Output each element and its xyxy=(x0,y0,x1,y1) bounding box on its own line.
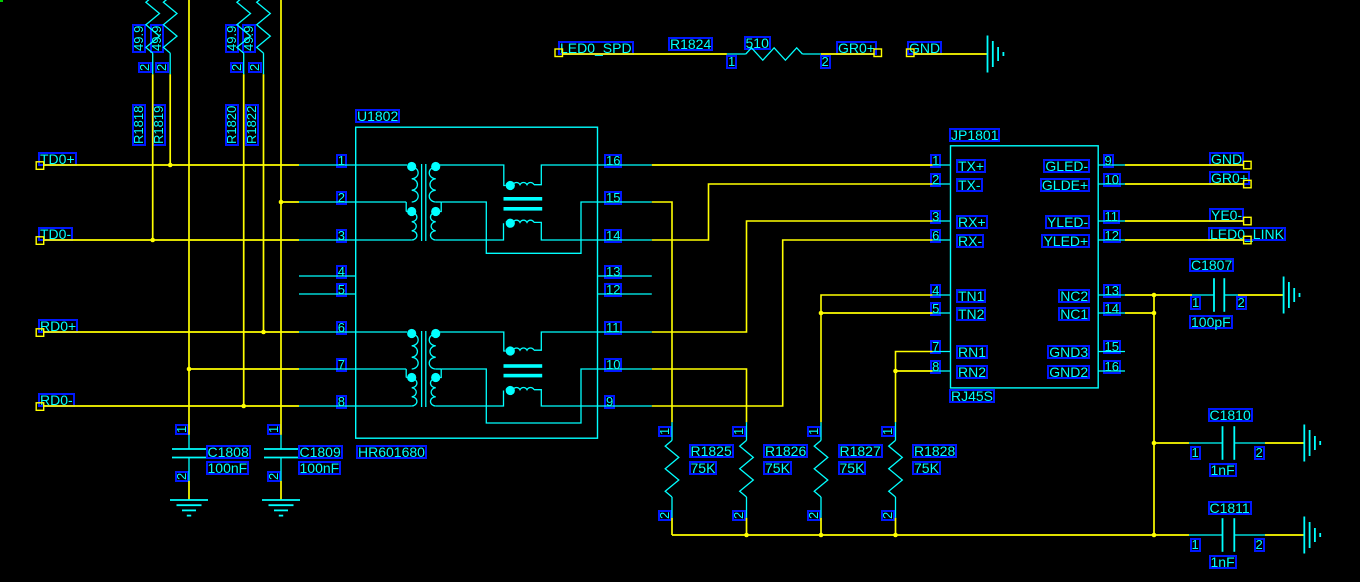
wire U14 to JP2 xyxy=(652,184,933,240)
label C1809 refdes xyxy=(298,445,343,459)
wire JP13 to C1807 xyxy=(1125,294,1192,296)
label R1824 refdes xyxy=(668,37,713,51)
label JP1801 pin number 3 xyxy=(930,210,941,224)
wire JP5 branch xyxy=(821,312,933,314)
capacitor C1810 1nF xyxy=(1189,442,1223,444)
port TD0+ xyxy=(36,162,44,170)
label JP1801 refdes xyxy=(949,128,1000,142)
wire R1825 to bus xyxy=(671,518,673,535)
U1802 choke winding A xyxy=(506,181,515,190)
label JP1801 pin number 13 xyxy=(1103,284,1121,298)
label R1822 refdes xyxy=(245,104,259,146)
label JP1801 pin number 4 xyxy=(930,284,941,298)
label R1825 pin2 xyxy=(658,510,672,521)
label C1808 value 100nF xyxy=(206,461,250,475)
label JP1801 pin name GND2 xyxy=(1047,365,1090,379)
label JP1801 pin number 2 xyxy=(930,173,941,187)
wire R1828 to bus xyxy=(895,518,897,535)
U1802 secondary winding xyxy=(431,329,440,338)
U1802 primary winding xyxy=(299,331,407,333)
wire JP14 branch xyxy=(1125,312,1154,314)
label U1802 pin number 10 xyxy=(604,358,622,372)
JP1801 pin 15 stub xyxy=(1098,351,1125,353)
JP1801 pin 11 stub xyxy=(1098,220,1125,222)
junction column/JP13 C1807 xyxy=(1152,293,1157,298)
label C1809 value 100nF xyxy=(298,461,342,475)
wire R1827 to bus xyxy=(820,518,822,535)
label U1802 pin number 3 xyxy=(336,229,347,243)
label JP1801 pin name NC1 xyxy=(1058,307,1090,321)
label JP1801 pin name RX- xyxy=(956,234,984,248)
junction column/bus C1811 xyxy=(1152,533,1157,538)
port LED0_SPD xyxy=(555,49,563,57)
port GND top xyxy=(907,49,915,57)
label JP1801 pin number 9 xyxy=(1103,154,1114,168)
label C1807 refdes xyxy=(1189,258,1234,272)
JP1801 pin 12 stub xyxy=(1098,239,1125,241)
junction R1818/TD0- xyxy=(150,238,155,243)
label R1826 value 75K xyxy=(763,461,792,475)
label R1819 pin2 xyxy=(155,61,169,72)
label R1827 pin1 xyxy=(807,425,821,436)
wire JP9 to GND port xyxy=(1125,164,1244,166)
JP1801 pin 8 stub xyxy=(933,370,951,372)
U1802 primary winding xyxy=(299,164,407,166)
label net YE0- right xyxy=(1209,208,1244,222)
U1802 secondary winding xyxy=(431,162,440,171)
port GND right xyxy=(1244,161,1252,169)
label U1802 part HR601680 xyxy=(356,445,427,459)
wire C1809 to ground xyxy=(280,481,282,500)
label R1826 pin1 xyxy=(732,425,746,436)
label JP1801 pin name TX+ xyxy=(956,159,986,173)
JP1801 pin 6 stub xyxy=(933,239,951,241)
resistor R1826 75K xyxy=(746,422,748,440)
label net TD0- xyxy=(38,227,73,241)
wire JP8 branch xyxy=(896,370,933,372)
port YE0- right xyxy=(1244,217,1252,225)
label U1802 pin number 8 xyxy=(336,395,347,409)
junction JP5/R1827 xyxy=(819,311,824,316)
label R1825 value 75K xyxy=(689,461,718,475)
label R1822 value 49.9 xyxy=(242,24,256,53)
wire C1808 to ground xyxy=(188,481,190,500)
label U1802 pin number 13 xyxy=(604,265,622,279)
label JP1801 pin number 6 xyxy=(930,229,941,243)
wire JP4 to R1827 xyxy=(821,295,933,422)
label R1820 pin2 xyxy=(230,61,244,72)
label JP1801 pin number 12 xyxy=(1103,229,1121,243)
ground C1809 xyxy=(262,499,300,501)
wire TD0- xyxy=(44,239,299,241)
wire ground bus xyxy=(672,534,1154,536)
wire R1826 to bus xyxy=(746,518,748,535)
label JP1801 pin name RN2 xyxy=(956,365,988,379)
label R1819 value 49.9 xyxy=(150,24,164,53)
U1802 choke winding A xyxy=(506,346,515,355)
label U1802 pin number 16 xyxy=(604,154,622,168)
label C1809 pin2 xyxy=(267,471,281,482)
label net GND top xyxy=(907,41,942,55)
U1802 core xyxy=(421,331,423,407)
JP1801 pin 7 stub xyxy=(933,351,951,353)
junction R1826/bus xyxy=(744,533,749,538)
label JP1801 pin name GND3 xyxy=(1047,345,1090,359)
wire JP12 to LED0_LINK port xyxy=(1125,239,1244,241)
JP1801 pin 4 stub xyxy=(933,294,951,296)
label C1811 value 1nF xyxy=(1209,555,1237,569)
label JP1801 pin name GLED- xyxy=(1043,159,1090,173)
capacitor C1807 100pF xyxy=(1192,294,1214,296)
label R1828 value 75K xyxy=(912,461,941,475)
junction R1828/bus xyxy=(893,533,898,538)
resistor R1828 75K xyxy=(895,422,897,440)
port TD0- xyxy=(36,237,44,245)
label U1802 pin number 4 xyxy=(336,265,347,279)
wire pin2 branch xyxy=(281,201,299,203)
label U1802 pin number 7 xyxy=(336,358,347,372)
JP1801 pin 2 stub xyxy=(933,183,951,185)
label R1824 value 510 xyxy=(744,36,771,50)
label JP1801 pin name GLDE+ xyxy=(1040,178,1090,192)
label JP1801 pin name TN1 xyxy=(956,289,986,303)
U1802 choke winding B xyxy=(436,223,504,240)
junction R1827/bus xyxy=(819,533,824,538)
label U1802 pin number 1 xyxy=(336,154,347,168)
label C1809 pin1 xyxy=(267,424,281,435)
JP1801 pin 9 stub xyxy=(1098,164,1125,166)
label C1810 refdes xyxy=(1208,408,1253,422)
resistor R1818 49.9 xyxy=(146,0,160,53)
resistor R1820 49.9 xyxy=(237,0,251,53)
capacitor C1808 100nF xyxy=(188,435,190,449)
label R1824 pin2 xyxy=(820,55,831,69)
wire vertical to C1809 xyxy=(280,0,282,435)
wire right vertical column xyxy=(1153,295,1155,535)
U1802 pin 13 stub xyxy=(598,275,652,277)
U1802 choke core bars xyxy=(504,197,543,201)
JP1801 pin 13 stub xyxy=(1098,294,1125,296)
label R1828 refdes xyxy=(912,444,957,458)
label JP1801 pin name RX+ xyxy=(956,215,988,229)
green artifact top-left corner xyxy=(0,0,3,2)
label JP1801 pin name NC2 xyxy=(1058,289,1090,303)
wire C1807 to ground xyxy=(1238,294,1284,296)
wire RD0+ xyxy=(44,331,299,333)
label JP1801 part RJ45S xyxy=(949,389,995,403)
junction wire/pin7 branch xyxy=(187,367,192,372)
U1802 choke core bars xyxy=(504,364,543,368)
wire U15 to R1825 xyxy=(652,202,672,422)
label R1818 pin2 xyxy=(138,61,152,72)
label net RD0+ xyxy=(38,319,78,333)
junction JP8/R1828 xyxy=(893,369,898,374)
label C1808 pin1 xyxy=(175,424,189,435)
label JP1801 pin number 15 xyxy=(1103,340,1121,354)
wire R1818 to TD0- xyxy=(152,74,154,240)
wire JP7 to R1828 xyxy=(896,352,933,423)
label R1818 value 49.9 xyxy=(132,24,146,53)
wire pin7 branch xyxy=(189,368,299,370)
label C1811 pin1 xyxy=(1190,538,1201,552)
label U1802 pin number 14 xyxy=(604,229,622,243)
label net RD0- xyxy=(38,393,75,407)
wire R1820 to RD0- xyxy=(243,74,245,406)
JP1801 pin 5 stub xyxy=(933,312,951,314)
label C1810 value 1nF xyxy=(1209,463,1237,477)
U1802 pin 5 stub xyxy=(299,293,356,295)
label JP1801 pin number 16 xyxy=(1103,360,1121,374)
port RD0+ xyxy=(36,329,44,337)
port RD0- xyxy=(36,403,44,411)
wire JP10 to GR0+ port xyxy=(1125,183,1244,185)
port GR0+ top xyxy=(874,49,882,57)
label net GR0+ right xyxy=(1209,171,1250,185)
resistor R1824 510 xyxy=(727,53,746,55)
junction wire/pin2 branch xyxy=(279,200,284,205)
label C1807 value 100pF xyxy=(1189,315,1233,329)
junction R1820/RD0- xyxy=(241,404,246,409)
resistor R1819 49.9 xyxy=(163,0,177,53)
label JP1801 pin name YLED- xyxy=(1045,215,1090,229)
capacitor C1811 1nF xyxy=(1189,534,1223,536)
U1802 center tap to pin xyxy=(436,368,442,370)
JP1801 pin 1 stub xyxy=(933,164,951,166)
label R1822 pin2 xyxy=(248,61,262,72)
U1802 pin 12 stub xyxy=(598,293,652,295)
ground C1808 xyxy=(170,499,208,501)
label R1820 refdes xyxy=(225,104,239,146)
wire U9 to JP6 xyxy=(652,240,933,406)
label U1802 pin number 12 xyxy=(604,283,622,297)
wire column to C1810 xyxy=(1154,442,1189,444)
wire JP11 to YE0- port xyxy=(1125,220,1244,222)
wire R1819 to TD0+ xyxy=(169,74,171,165)
label R1826 pin2 xyxy=(732,510,746,521)
resistor R1822 49.9 xyxy=(257,0,271,53)
label JP1801 pin name YLED+ xyxy=(1041,234,1090,248)
resistor R1827 75K xyxy=(820,422,822,440)
transformer U1802 body xyxy=(356,127,598,438)
label U1802 pin number 2 xyxy=(336,191,347,205)
ground C1810 xyxy=(1303,425,1305,462)
label U1802 pin number 9 xyxy=(604,395,615,409)
label R1820 value 49.9 xyxy=(225,24,239,53)
JP1801 pin 14 stub xyxy=(1098,312,1125,314)
label C1808 refdes xyxy=(206,445,251,459)
label net LED0_SPD xyxy=(558,41,634,55)
label R1827 pin2 xyxy=(807,510,821,521)
label C1811 refdes xyxy=(1208,501,1252,515)
label R1827 value 75K xyxy=(838,461,867,475)
capacitor C1809 100nF xyxy=(280,435,282,449)
JP1801 pin 10 stub xyxy=(1098,183,1125,185)
U1802 choke winding B xyxy=(436,391,504,407)
label C1807 pin1 xyxy=(1190,296,1201,310)
ground C1811 xyxy=(1303,517,1305,554)
label net TD0+ xyxy=(38,152,77,166)
junction column/JP14 xyxy=(1152,311,1157,316)
ground C1807 xyxy=(1283,277,1285,314)
wire LED0_SPD to R1824 pin1 xyxy=(563,53,727,55)
label JP1801 pin number 11 xyxy=(1103,210,1121,224)
label U1802 refdes xyxy=(355,109,400,123)
label JP1801 pin number 8 xyxy=(930,360,941,374)
wire C1810 to ground xyxy=(1265,442,1304,444)
connector JP1801 body xyxy=(951,146,1099,388)
wire GND port to ground xyxy=(913,53,987,55)
label net LED0_LINK right xyxy=(1208,227,1286,241)
resistor R1825 75K xyxy=(671,422,673,440)
label U1802 pin number 15 xyxy=(604,191,622,205)
label R1828 pin2 xyxy=(881,510,895,521)
label C1811 pin2 xyxy=(1254,538,1265,552)
label JP1801 pin number 7 xyxy=(930,340,941,354)
label C1807 pin2 xyxy=(1236,296,1247,310)
wire C1811 to ground xyxy=(1265,534,1304,536)
label U1802 pin number 5 xyxy=(336,283,347,297)
junction R1822/RD0+ xyxy=(261,330,266,335)
label JP1801 pin name TX- xyxy=(956,178,983,192)
label R1818 refdes xyxy=(132,104,146,146)
junction column/C1810 xyxy=(1152,441,1157,446)
label net GND right xyxy=(1209,152,1244,166)
label C1808 pin2 xyxy=(175,471,189,482)
label R1825 refdes xyxy=(689,444,734,458)
JP1801 pin 16 stub xyxy=(1098,370,1125,372)
label JP1801 pin name TN2 xyxy=(956,307,986,321)
label C1810 pin1 xyxy=(1190,446,1201,460)
U1802 center tap to pin xyxy=(436,201,442,203)
label R1826 refdes xyxy=(763,444,808,458)
label JP1801 pin number 14 xyxy=(1103,302,1121,316)
wire TD0+ xyxy=(44,164,299,166)
wire U16 to JP1 xyxy=(652,164,933,166)
wire vertical to C1808 xyxy=(188,0,190,435)
label R1827 refdes xyxy=(838,444,883,458)
label R1824 pin1 xyxy=(726,55,737,69)
wire bus to C1811 xyxy=(1154,534,1189,536)
wire R1824 pin2 to GR0+ port xyxy=(821,53,874,55)
label R1825 pin1 xyxy=(658,425,672,436)
wire U10 to R1826 xyxy=(652,369,747,422)
port GR0+ right xyxy=(1244,180,1252,188)
label R1819 refdes xyxy=(152,104,166,146)
junction R1819/TD0+ xyxy=(168,163,173,168)
label JP1801 pin number 5 xyxy=(930,302,941,316)
wire RD0- xyxy=(44,405,299,407)
U1802 core xyxy=(421,164,423,241)
label U1802 pin number 6 xyxy=(336,321,347,335)
label JP1801 pin number 10 xyxy=(1103,173,1121,187)
JP1801 pin 3 stub xyxy=(933,220,951,222)
U1802 pin 4 stub xyxy=(299,275,356,277)
label JP1801 pin number 1 xyxy=(930,154,941,168)
port LED0_LINK right xyxy=(1244,236,1252,244)
label JP1801 pin name RN1 xyxy=(956,345,988,359)
ground GND top xyxy=(987,36,989,73)
label net GR0+ top xyxy=(836,41,877,55)
wire U11 to JP3 xyxy=(652,221,933,332)
wire R1822 to RD0+ xyxy=(263,74,265,332)
label R1828 pin1 xyxy=(881,425,895,436)
label C1810 pin2 xyxy=(1254,446,1265,460)
label U1802 pin number 11 xyxy=(604,321,622,335)
